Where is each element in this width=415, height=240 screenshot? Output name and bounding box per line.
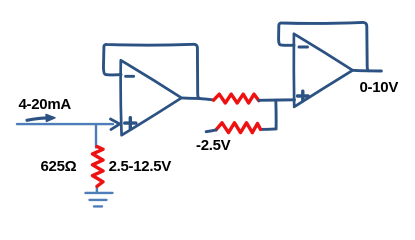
wire: U2 feedback loop xyxy=(279,22,369,70)
wire: U1 output to resistor R2 xyxy=(182,98,214,100)
op-amp U1 plus input mark xyxy=(125,118,136,129)
op-amp U2 triangle xyxy=(294,34,353,107)
op-amp U1 minus input mark xyxy=(126,75,134,78)
label: 4-20mA xyxy=(19,96,71,113)
ground symbol xyxy=(86,193,113,207)
wire: -2.5V stub to resistor R3 xyxy=(206,130,216,132)
node: vertical drop of summing junction xyxy=(274,100,277,129)
op-amp U2 minus input mark xyxy=(299,46,308,49)
wire: U1 feedback loop xyxy=(103,44,199,98)
wire: node bottom to resistor R3 xyxy=(260,127,276,130)
op-amp U2 plus input mark xyxy=(298,91,308,101)
arrowhead into op-amp U1 plus input xyxy=(111,119,120,130)
wire: 4-20mA input line xyxy=(17,123,113,125)
wire: resistor bottom to ground xyxy=(96,186,98,193)
resistor R1 625 ohm (vertical red zigzag) xyxy=(93,147,104,187)
resistor R3 (horizontal red zigzag, bottom) xyxy=(216,123,261,133)
wire: U2 output xyxy=(353,69,382,73)
label: 0-10V xyxy=(360,79,399,96)
current-direction arrow under 4-20mA label xyxy=(27,114,55,121)
label: 625 ohm xyxy=(41,158,77,175)
wire: junction drop to 625 ohm resistor xyxy=(95,124,97,147)
label: 2.5-12.5V xyxy=(109,158,171,175)
resistor R2 (horizontal red zigzag, top) xyxy=(214,94,259,103)
op-amp U1 triangle xyxy=(121,60,182,135)
label: -2.5V xyxy=(196,137,230,154)
wire: R2 to summing node and U2 plus input xyxy=(259,98,295,101)
